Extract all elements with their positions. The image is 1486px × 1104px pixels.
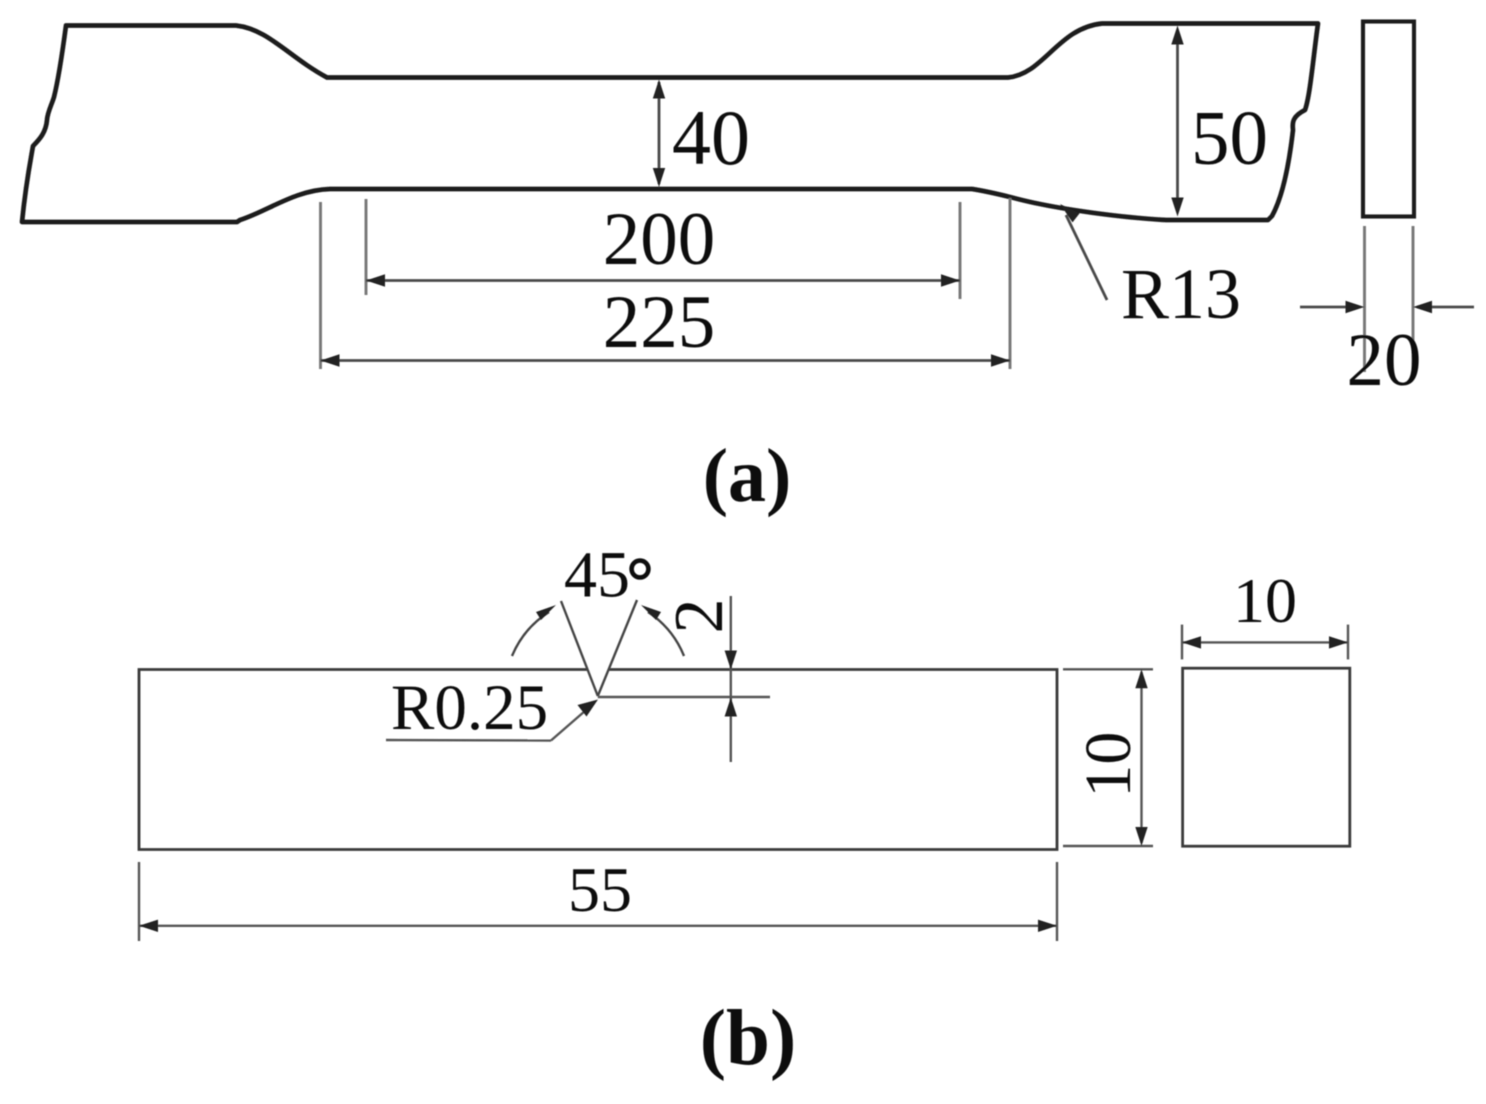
svg-text:200: 200 [603,198,716,281]
notch V lines [561,600,637,696]
dimension 55 (specimen length) [139,854,1057,941]
dimension 20 (thickness) [1300,226,1474,402]
svg-text:55: 55 [568,854,632,925]
notch bottom reference line [598,696,770,698]
leader R0.25 (notch root radius) [386,672,598,744]
angle arc left with arrow [512,605,556,656]
svg-text:(b): (b) [700,995,797,1082]
dimension 40 (gauge width) [653,80,750,188]
label (b) [700,995,797,1082]
svg-text:45: 45 [564,539,630,612]
svg-text:10: 10 [1233,565,1297,636]
svg-text:(a): (a) [703,434,792,518]
svg-text:20: 20 [1347,319,1422,402]
side view rectangle (a) [1363,22,1414,217]
svg-text:R13: R13 [1121,254,1241,334]
svg-text:225: 225 [603,281,716,364]
square cross-section (b) [1183,668,1350,846]
dimension 50 (grip width) [1171,26,1268,217]
specimen outline (a) dog-bone tensile specimen [22,24,1318,223]
svg-text:10: 10 [1072,732,1145,798]
text 45 degrees [564,539,648,612]
leader R13 (fillet radius) [1060,198,1241,334]
svg-text:40: 40 [672,94,750,181]
dimension 10 (height, right of rectangle) [1063,669,1153,846]
svg-text:2: 2 [661,599,738,634]
dimension 10 (top of square) [1182,565,1348,659]
angle arc right with arrow [641,605,684,656]
dimension 225 (overall length) [321,198,1011,369]
dimension 200 (gauge length) [366,198,960,299]
label (a) [703,434,792,518]
charpy specimen rectangle (b) with notch gap in top edge [139,670,1057,850]
dimension 2 (notch depth) [661,596,738,762]
svg-text:R0.25: R0.25 [391,672,548,744]
svg-text:50: 50 [1191,95,1268,181]
